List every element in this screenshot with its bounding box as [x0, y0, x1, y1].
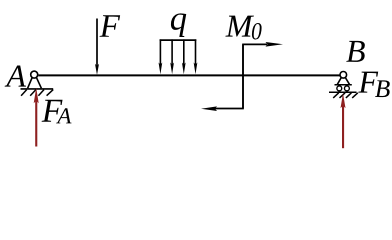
roller support B: triangle legs [337, 78, 349, 85]
pin support A: pin circle [31, 71, 38, 78]
reaction force FB (red arrow) [341, 93, 346, 148]
distributed load q: bracket [160, 39, 197, 41]
node A label [5, 65, 26, 86]
label q [171, 13, 186, 37]
force F arrow [95, 19, 99, 76]
beam [38, 74, 339, 76]
roller support B: hatching [333, 93, 358, 98]
roller support B: pin circle [340, 72, 347, 79]
node B label [346, 41, 365, 62]
pin support A: triangle legs [28, 77, 42, 88]
roller support B: rollers [337, 86, 350, 91]
moment M0: vertical line [242, 44, 244, 108]
moment M0: top arm with right arrow [242, 42, 283, 47]
distributed load q: arrow 3 [182, 39, 186, 74]
label F [100, 15, 121, 37]
pin support A: ground line [21, 88, 54, 90]
roller support B: ground line [329, 91, 357, 93]
distributed load q: arrow 1 [159, 39, 163, 74]
label FA [42, 100, 72, 124]
label M0 [225, 16, 261, 40]
reaction force FA (red arrow) [34, 88, 39, 147]
distributed load q: arrow 2 [170, 39, 174, 74]
label FB [358, 72, 390, 97]
pin support A: hatching [21, 90, 53, 96]
moment M0: bottom arm with left arrow [201, 106, 244, 111]
distributed load q: arrow 4 [194, 39, 198, 74]
roller support B: triangle base line [335, 84, 352, 86]
